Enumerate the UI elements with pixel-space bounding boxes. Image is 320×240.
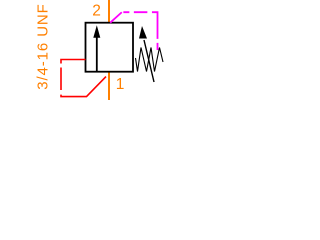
port 2 line <box>108 0 110 23</box>
adjustment arrowhead <box>139 26 147 39</box>
svg-text:1: 1 <box>116 76 125 93</box>
valve envelope box <box>86 23 134 72</box>
port 1 line <box>108 72 110 100</box>
svg-text:2: 2 <box>92 2 101 19</box>
pilot line (magenta dashed) <box>110 12 157 50</box>
flow path arrow shaft <box>96 38 98 72</box>
spring <box>136 48 164 72</box>
adjustment arrow shaft <box>144 40 154 82</box>
svg-text:3/4-16 UNF: 3/4-16 UNF <box>34 3 51 90</box>
drain line (red dashed) <box>61 60 106 97</box>
flow path arrowhead <box>93 25 100 38</box>
